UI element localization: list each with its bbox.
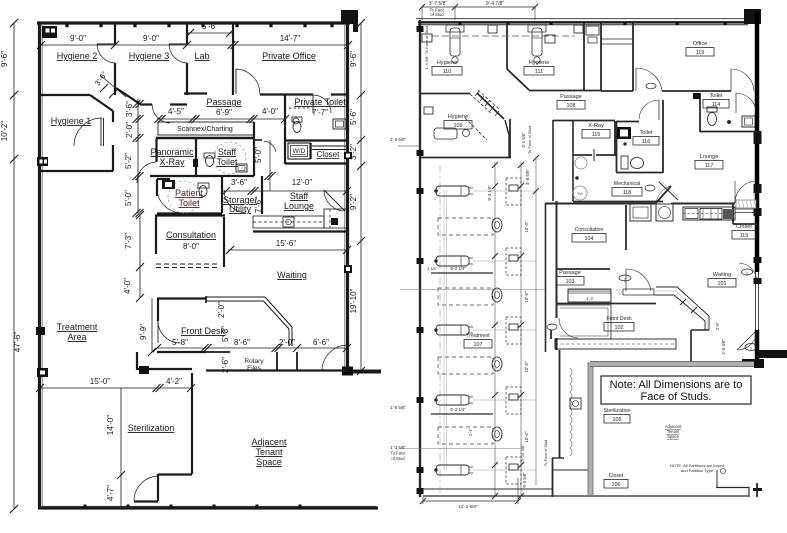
- svg-text:Rotary: Rotary: [244, 358, 264, 365]
- svg-text:7'-7": 7'-7": [312, 108, 328, 117]
- svg-text:Toilet: Toilet: [639, 130, 653, 136]
- svg-text:Panoramic: Panoramic: [150, 147, 194, 157]
- svg-text:4'-0": 4'-0": [262, 107, 278, 116]
- svg-text:6'-2 1/4": 6'-2 1/4": [450, 407, 466, 412]
- svg-text:10'-0": 10'-0": [524, 291, 529, 303]
- svg-text:Toilet: Toilet: [216, 157, 238, 167]
- svg-text:Treatment: Treatment: [57, 322, 98, 332]
- svg-text:6'-6": 6'-6": [313, 338, 329, 347]
- svg-text:2'-0": 2'-0": [217, 302, 226, 318]
- svg-text:101: 101: [718, 281, 727, 287]
- svg-text:9'-0": 9'-0": [143, 34, 159, 43]
- svg-text:of Stud: of Stud: [430, 12, 444, 17]
- svg-text:2'-0": 2'-0": [279, 338, 295, 347]
- svg-text:2'-6": 2'-6": [221, 357, 230, 373]
- svg-text:Office: Office: [693, 41, 708, 47]
- svg-text:Hygiene 3: Hygiene 3: [129, 51, 170, 61]
- svg-text:Waiting: Waiting: [713, 272, 731, 278]
- svg-text:12'-0": 12'-0": [292, 178, 313, 187]
- svg-text:11'-2 5/8": 11'-2 5/8": [458, 504, 477, 509]
- svg-text:3'-7 5/8": 3'-7 5/8": [429, 1, 448, 7]
- svg-text:3'-6": 3'-6": [231, 178, 247, 187]
- svg-text:4'-0": 4'-0": [123, 278, 132, 294]
- svg-text:Consultation: Consultation: [166, 230, 216, 240]
- svg-text:103: 103: [566, 279, 575, 285]
- svg-text:108: 108: [567, 103, 576, 109]
- svg-text:6'-9": 6'-9": [216, 108, 232, 117]
- svg-text:Patient: Patient: [175, 188, 204, 198]
- svg-text:Hygiene: Hygiene: [529, 60, 550, 66]
- svg-text:2'-6": 2'-6": [715, 321, 720, 330]
- svg-text:106: 106: [612, 482, 621, 488]
- svg-text:Space: Space: [256, 457, 282, 467]
- svg-text:15'-0": 15'-0": [90, 377, 111, 386]
- svg-text:1'-3 5/8": 1'-3 5/8": [390, 445, 406, 450]
- svg-text:To Face of Stud: To Face of Stud: [544, 440, 548, 467]
- svg-text:Toilet: Toilet: [709, 93, 723, 99]
- svg-text:5'-6": 5'-6": [349, 109, 358, 125]
- svg-text:Hygiene: Hygiene: [437, 60, 458, 66]
- svg-text:3'-6": 3'-6": [125, 101, 134, 117]
- svg-text:SW: SW: [577, 192, 583, 196]
- svg-text:9'-3 1/8": 9'-3 1/8": [487, 185, 492, 201]
- svg-text:9'-6": 9'-6": [349, 51, 358, 67]
- svg-text:110: 110: [443, 69, 452, 75]
- svg-text:14'-0": 14'-0": [106, 415, 115, 436]
- svg-text:8'-6": 8'-6": [234, 338, 250, 347]
- svg-text:Lab: Lab: [194, 51, 209, 61]
- svg-text:9'-6": 9'-6": [0, 51, 9, 67]
- svg-text:Area: Area: [67, 332, 86, 342]
- svg-text:Hygiene 1: Hygiene 1: [51, 116, 92, 126]
- svg-text:4'-5": 4'-5": [168, 107, 184, 116]
- svg-text:14'-7": 14'-7": [280, 34, 301, 43]
- svg-text:Lounge: Lounge: [284, 201, 314, 211]
- svg-text:109: 109: [454, 123, 463, 129]
- svg-text:118: 118: [623, 190, 632, 196]
- svg-text:3'-10 3/8": 3'-10 3/8": [520, 444, 525, 461]
- svg-text:10'-0": 10'-0": [524, 221, 529, 233]
- svg-text:9'-3 5/8": 9'-3 5/8": [522, 472, 527, 488]
- svg-text:8'-0": 8'-0": [183, 242, 199, 251]
- svg-text:Private Office: Private Office: [262, 51, 316, 61]
- svg-text:1'-6 5/8": 1'-6 5/8": [390, 405, 407, 410]
- svg-text:Closet: Closet: [609, 473, 624, 479]
- svg-text:4'-5 3/8": 4'-5 3/8": [721, 339, 726, 355]
- svg-text:4'-7": 4'-7": [106, 485, 115, 501]
- svg-text:104: 104: [585, 236, 594, 242]
- svg-text:5'-0": 5'-0": [124, 190, 133, 206]
- svg-text:Staff: Staff: [218, 147, 237, 157]
- svg-text:of Stud: of Stud: [391, 456, 405, 461]
- svg-text:1'-4 5/8" To Face of Stud: 1'-4 5/8" To Face of Stud: [424, 26, 429, 70]
- svg-text:Toilet: Toilet: [178, 198, 200, 208]
- svg-text:6'-2 1/4": 6'-2 1/4": [450, 266, 466, 271]
- svg-text:9'-4 7/8": 9'-4 7/8": [486, 1, 505, 7]
- svg-text:5'-0": 5'-0": [254, 147, 263, 163]
- svg-text:115: 115: [592, 132, 601, 138]
- svg-text:To Face of Stud: To Face of Stud: [527, 126, 532, 154]
- svg-text:1'-6 5/8": 1'-6 5/8": [390, 137, 407, 142]
- svg-text:10'-2": 10'-2": [0, 121, 9, 142]
- svg-text:Sterilization: Sterilization: [128, 423, 175, 433]
- svg-text:Passage: Passage: [559, 270, 581, 276]
- svg-text:Mechanical: Mechanical: [614, 181, 640, 187]
- svg-text:7'-3": 7'-3": [124, 233, 133, 249]
- svg-text:X-Ray: X-Ray: [588, 123, 604, 129]
- svg-text:Sterilization: Sterilization: [604, 408, 631, 414]
- svg-text:Utility: Utility: [229, 204, 251, 214]
- svg-text:107: 107: [474, 342, 483, 348]
- svg-text:119: 119: [740, 233, 749, 239]
- svg-text:111: 111: [535, 69, 543, 75]
- svg-text:5'-2": 5'-2": [124, 153, 133, 169]
- svg-text:Tenant: Tenant: [255, 447, 283, 457]
- svg-text:1'-1": 1'-1": [468, 427, 473, 436]
- svg-text:Passage: Passage: [560, 94, 582, 100]
- svg-text:117: 117: [705, 163, 714, 169]
- svg-text:102: 102: [615, 325, 624, 331]
- svg-text:Note: All Dimensions are to: Note: All Dimensions are to: [610, 379, 743, 391]
- svg-text:9'-2": 9'-2": [349, 194, 358, 210]
- svg-text:5'-6": 5'-6": [202, 22, 218, 31]
- svg-text:Treatment: Treatment: [466, 333, 490, 339]
- svg-text:5'-8": 5'-8": [221, 326, 230, 342]
- svg-text:19'-10": 19'-10": [349, 288, 358, 313]
- svg-text:Lounge: Lounge: [700, 154, 719, 160]
- svg-text:9'-9": 9'-9": [139, 324, 148, 340]
- svg-text:105: 105: [613, 417, 622, 423]
- svg-text:10'-0": 10'-0": [524, 431, 529, 443]
- svg-text:9'-0": 9'-0": [70, 34, 86, 43]
- svg-text:2'-0": 2'-0": [125, 122, 134, 138]
- svg-text:Waiting: Waiting: [277, 270, 307, 280]
- svg-text:4 3/8": 4 3/8": [427, 267, 437, 271]
- svg-text:Files: Files: [247, 365, 261, 372]
- svg-text:15'-6": 15'-6": [276, 239, 297, 248]
- svg-text:47'-6": 47'-6": [13, 332, 22, 353]
- svg-text:Staff: Staff: [290, 191, 309, 201]
- svg-text:10'-0": 10'-0": [524, 361, 529, 373]
- svg-text:Private Toilet: Private Toilet: [294, 97, 346, 107]
- svg-text:X-Ray: X-Ray: [159, 157, 185, 167]
- svg-text:5'-8": 5'-8": [172, 338, 188, 347]
- svg-text:To Face: To Face: [391, 451, 407, 456]
- svg-text:Space: Space: [667, 434, 680, 439]
- svg-text:and Partition Type: and Partition Type: [681, 468, 714, 473]
- svg-text:Front Desk: Front Desk: [606, 316, 632, 322]
- svg-text:Adjacent: Adjacent: [251, 437, 287, 447]
- svg-text:Hygiene: Hygiene: [448, 114, 469, 120]
- svg-text:Scannex/Charting: Scannex/Charting: [177, 126, 233, 133]
- svg-text:Passage: Passage: [206, 97, 241, 107]
- svg-text:119: 119: [696, 50, 705, 56]
- svg-text:Closet: Closet: [317, 150, 340, 159]
- svg-text:Closet: Closet: [736, 224, 752, 230]
- svg-text:4'-9": 4'-9": [586, 297, 594, 301]
- svg-text:116: 116: [642, 139, 651, 145]
- svg-text:4'-8 5/8": 4'-8 5/8": [525, 169, 530, 186]
- svg-text:4'-2": 4'-2": [166, 377, 182, 386]
- svg-text:W/D: W/D: [293, 148, 306, 155]
- svg-text:Face of Studs.: Face of Studs.: [641, 391, 712, 403]
- svg-text:Consultation: Consultation: [575, 227, 604, 233]
- svg-text:3'-4 5/8": 3'-4 5/8": [521, 132, 526, 148]
- svg-text:Hygiene 2: Hygiene 2: [57, 51, 98, 61]
- svg-text:Front Desk: Front Desk: [181, 326, 226, 336]
